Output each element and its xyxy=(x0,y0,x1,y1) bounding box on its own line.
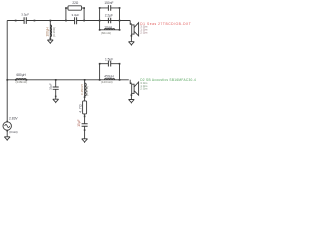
svg-text:(0.38Ω): (0.38Ω) xyxy=(52,27,56,37)
inductor RLC vertical coil xyxy=(85,83,87,96)
capacitor 1.5uF plates xyxy=(108,61,110,67)
svg-text:680µH: 680µH xyxy=(16,73,26,77)
ground tweeter speaker xyxy=(129,42,135,46)
inductor shunt tweeter vertical xyxy=(49,21,51,41)
capacitor 33uF shunt xyxy=(53,80,59,99)
parallel block tweeter top branch xyxy=(100,7,120,9)
inductor 10uH coil xyxy=(104,29,114,30)
svg-text:(0mΩ): (0mΩ) xyxy=(9,130,17,134)
svg-text:(0.27Ω): (0.27Ω) xyxy=(85,86,89,96)
svg-text:2 Ωm: 2 Ωm xyxy=(140,87,148,91)
svg-text:10µH: 10µH xyxy=(104,25,112,29)
capacitor 3.3uF mid plates xyxy=(75,17,77,24)
wire woofer to ground xyxy=(130,93,132,99)
ground source xyxy=(4,137,10,141)
resistor 22ohm box top branch xyxy=(66,7,68,9)
parallel block woofer verticals xyxy=(100,64,120,80)
svg-text:2.2µF: 2.2µF xyxy=(105,14,113,18)
junction and pin dots xyxy=(6,7,132,131)
wire top rail xyxy=(7,20,130,22)
resistor RLC box xyxy=(83,101,87,114)
parallel block R over cap verticals xyxy=(66,8,84,21)
inductor L2 coil woofer series xyxy=(16,79,26,80)
svg-text:D2 SB Acoustics SB16MFAC30-4: D2 SB Acoustics SB16MFAC30-4 xyxy=(140,78,196,82)
inductor 450uH coil xyxy=(104,79,114,80)
wire woofer rail xyxy=(7,79,129,81)
wire tweeter jog xyxy=(130,21,132,25)
parallel block tweeter bottom branch xyxy=(100,29,120,31)
svg-text:D1 Seas 27TBCD/GB-DXT: D1 Seas 27TBCD/GB-DXT xyxy=(140,22,191,26)
parallel block woofer top branch xyxy=(100,63,120,65)
svg-text:100µH: 100µH xyxy=(46,26,50,36)
tweeter speaker symbol xyxy=(132,25,134,34)
wire left bus xyxy=(6,21,8,122)
svg-text:(120mΩ): (120mΩ) xyxy=(101,80,113,84)
svg-text:3.3µF: 3.3µF xyxy=(21,13,29,17)
AC source generator xyxy=(3,122,11,130)
wire woofer jog xyxy=(130,80,132,84)
driver D1 text block xyxy=(140,22,191,34)
svg-text:22Ω: 22Ω xyxy=(72,1,79,5)
driver D2 text block xyxy=(140,78,196,90)
capacitor C1 plates xyxy=(24,17,26,24)
ground RLC xyxy=(82,139,88,143)
svg-text:2.83V: 2.83V xyxy=(9,117,18,121)
capacitor 2.2uF plates xyxy=(108,18,110,24)
svg-text:(248mΩ): (248mΩ) xyxy=(16,80,28,84)
svg-text:150nF: 150nF xyxy=(104,1,113,5)
svg-text:1.5µF: 1.5µF xyxy=(105,57,113,61)
RLC shunt branch wire xyxy=(84,80,86,139)
capacitor RLC plates xyxy=(82,124,88,126)
wire tweeter to ground xyxy=(130,34,132,42)
svg-text:15µF: 15µF xyxy=(77,119,81,126)
ground tweeter shunt inductor xyxy=(47,40,53,44)
svg-text:450µH: 450µH xyxy=(104,74,114,78)
svg-text:33µF: 33µF xyxy=(48,83,52,90)
svg-text:(60mΩ): (60mΩ) xyxy=(101,31,111,35)
woofer speaker symbol xyxy=(132,84,134,93)
svg-text:0.15mH: 0.15mH xyxy=(80,84,84,95)
parallel block tweeter verticals xyxy=(100,8,120,30)
capacitor 150nF plates xyxy=(108,5,110,11)
ground 33uF xyxy=(53,99,59,103)
labels xyxy=(9,1,114,134)
svg-text:3.3µF: 3.3µF xyxy=(72,13,80,17)
svg-text:4.7Ω: 4.7Ω xyxy=(78,104,82,113)
ground woofer speaker xyxy=(129,100,135,104)
svg-text:2 Ωm: 2 Ωm xyxy=(140,30,148,34)
